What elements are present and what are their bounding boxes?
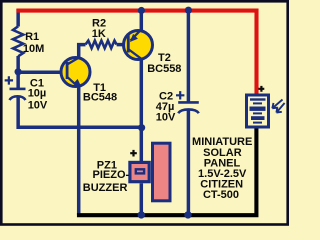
svg-text:R1: R1 [25,31,39,43]
light arrows [272,100,284,113]
wire: T2 emitter up to +rail [140,11,144,30]
svg-text:CT-500: CT-500 [203,189,239,201]
resistor R2 [86,41,117,49]
svg-text:PIEZO-: PIEZO- [93,169,130,181]
node: C2 on ground rail [184,211,191,218]
wire: buzzer bottom to ground rail [140,183,144,213]
piezo buzzer PZ1 plus sign [130,150,137,157]
svg-text:10µ: 10µ [28,88,47,100]
svg-text:10M: 10M [23,43,44,55]
wire: node A down to C1 top plate [16,72,20,88]
transistor T2 (BC558) [124,29,153,59]
svg-text:10V: 10V [28,100,48,112]
wire: C2 bottom to ground rail [187,111,191,216]
svg-text:BC548: BC548 [83,92,117,104]
svg-text:1K: 1K [92,28,106,40]
node: buzzer on ground rail [138,211,145,218]
solar panel cells [250,98,266,123]
black wire: panel negative down and ground rail [77,129,256,216]
wire: T1 emitter down to ground rail [77,88,81,216]
transistor T1 (BC548) [61,57,90,88]
solar panel outline [247,95,269,127]
node: T2 emitter on +rail [138,7,145,14]
capacitor C1 plus sign [5,76,13,84]
wire: R1 bottom to node A [16,56,20,74]
capacitor C1 [10,88,26,91]
node: middle rail meets buzzer wire [138,124,145,131]
piezo buzzer PZ1 [130,143,170,201]
capacitor C2 plus sign [176,91,184,99]
wire: T1 collector up and right to R2 [79,45,86,58]
capacitor C2 [178,101,199,104]
svg-text:BUZZER: BUZZER [83,182,128,194]
node A junction dot [15,68,22,75]
solar panel plus sign [259,86,265,92]
wire: left vertical from +rail to R1 [16,9,20,27]
wire: R2 right lead to T2 base [117,43,129,47]
resistor R1 [13,26,23,56]
label MINIATURE SOLAR PANEL [192,136,252,201]
wire: C1 bottom, elbow, middle rail to T2 collector line [18,98,141,128]
red positive rail [16,11,256,94]
wire: C2 top to +rail [187,11,191,102]
node: C2 on +rail [185,7,192,14]
wire: T2 collector down to buzzer [140,60,144,161]
svg-text:BC558: BC558 [147,63,181,75]
svg-text:10V: 10V [156,112,176,124]
wire: base wire node A to T1 base [18,71,66,75]
